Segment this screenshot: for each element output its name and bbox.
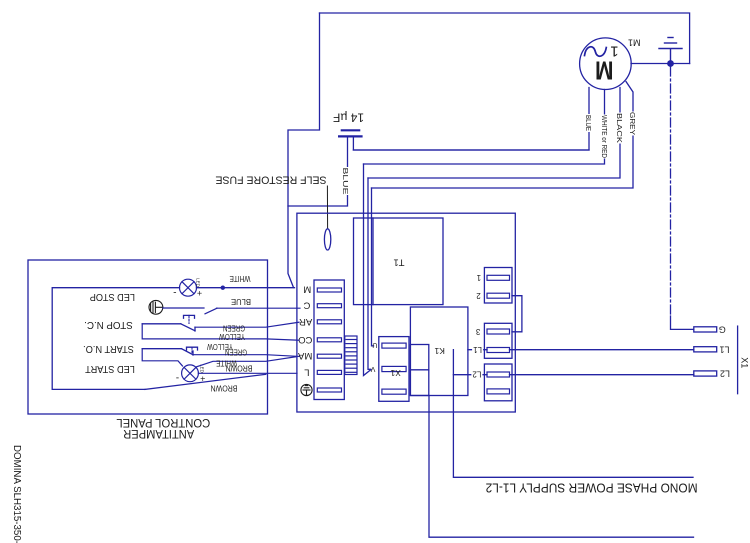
fuse F1 [324,229,330,250]
wire: mains top loop [320,13,690,64]
wire: motor to ground junction [631,63,690,65]
motor M1 [580,38,632,90]
label M [303,283,311,294]
svg-text:L: L [304,367,309,378]
svg-text:L2: L2 [472,370,481,379]
label 1 [476,273,481,282]
wire: STOP to AR [195,322,299,327]
label V [370,365,375,372]
svg-text:BROWN: BROWN [225,364,252,373]
label LED START [85,363,135,374]
earth terminal symbol [301,384,312,395]
wire: START to MA [193,355,299,357]
wire: GREY drop to U [372,188,374,346]
label WHITE (start) [216,359,237,368]
label C [303,300,310,311]
svg-text:L1: L1 [719,345,729,355]
wire: supply L1 bottom run [429,396,694,538]
svg-text:BLUE: BLUE [231,297,251,306]
svg-text:MONO PHASE POWER SUPPLY L1-L2: MONO PHASE POWER SUPPLY L1-L2 [486,480,698,495]
svg-text:U: U [372,341,377,348]
svg-text:X1: X1 [390,368,401,378]
terminal L2 [694,371,717,376]
wire: lamp to L [198,372,297,374]
svg-text:+: + [197,288,202,298]
label START N.O. [83,343,134,354]
label YELLOW [219,332,245,341]
svg-text:BLUE: BLUE [584,115,593,131]
ground symbol [659,38,682,64]
control panel outline [28,260,268,414]
transformer T1 [354,218,444,305]
svg-text:C: C [303,300,310,311]
label AR [299,316,312,327]
svg-text:L1: L1 [473,345,482,354]
svg-text:T1: T1 [393,256,404,267]
terminal block 3-L1 [484,323,512,358]
svg-text:X1: X1 [740,357,750,368]
wire: capacitor to M bus [288,138,348,207]
svg-text:1: 1 [610,43,618,60]
label GREY [628,112,637,136]
label YELLOW (start) [207,342,233,351]
svg-text:-: - [176,372,179,383]
svg-text:LED STOP: LED STOP [90,291,135,302]
wire: motor GREY [372,82,634,189]
label LED STOP [90,291,135,302]
wire: lamp to M [197,287,295,289]
switch START N.O. [142,347,197,355]
svg-text:GREEN: GREEN [225,347,247,356]
label GREEN (start) [225,347,247,356]
node: junction dot [221,286,225,290]
svg-text:G: G [719,325,726,335]
terminal L1 [694,347,717,352]
relay K1 [410,307,468,396]
svg-text:M1: M1 [628,37,641,47]
wire: BLACK drop to V [368,178,371,369]
wire: motor BLUE [353,88,589,151]
wire: mains left drop to M terminal [288,13,320,288]
svg-text:2: 2 [476,291,481,300]
buzzer [149,300,163,314]
label BLUE (motor) [584,114,593,132]
svg-text:WHITE: WHITE [230,274,251,283]
svg-text:BROWN: BROWN [210,384,237,393]
svg-text:-: - [173,286,176,297]
label L [304,367,309,378]
wire: capacitor to motor BLUE [353,138,589,151]
label WHITE or RED [600,115,609,159]
label GREEN [223,323,245,332]
terminal block 1-2 [484,268,512,304]
control board outline [297,213,515,412]
X1 bracket [737,326,739,394]
wire: lamp white to MA [196,357,297,367]
terminal block L2 [484,364,512,401]
svg-text:SELF RESTORE FUSE: SELF RESTORE FUSE [216,174,327,186]
lamp LED START [182,365,199,382]
label CO [298,334,312,345]
wire: brown return diagonal [145,374,266,389]
terminal G [694,327,717,332]
label ANTITAMPER CONTROL PANEL [116,416,210,430]
svg-text:BLACK: BLACK [615,113,624,143]
label BROWN (upper) [225,364,252,373]
label DOMINA code [11,445,23,543]
label MONO PHASE POWER SUPPLY L1-L2 [486,480,698,495]
label BLUE (panel) [231,297,251,306]
wire: L2 branch [453,350,693,478]
wire: earth dash-dot run to G terminal [670,67,672,316]
label U [372,341,377,348]
svg-text:LED START: LED START [85,363,135,374]
wire: L1 to X1 terminal [510,349,694,351]
svg-text:START N.O.: START N.O. [83,343,134,354]
label 3 [475,327,480,336]
wire: panel bus left [52,288,179,390]
svg-text:BLUE: BLUE [341,168,350,195]
lamp LED STOP [180,279,197,296]
svg-text:DOMINA SLH315-350-: DOMINA SLH315-350- [11,445,23,543]
label MA [297,350,312,361]
switch STOP N.C. [142,315,195,331]
svg-text:MA: MA [297,350,312,361]
wire: bus start to lamp [142,349,182,366]
capacitor C1 14uF [333,111,364,123]
label BLUE (capacitor) [341,167,350,195]
svg-text:V: V [370,365,375,372]
wire: WHITE/RED drop to V [364,164,372,376]
label M1 [628,37,641,47]
comb jumper block [345,336,357,375]
svg-text:K1: K1 [434,346,445,356]
label STOP N.C. [84,319,133,330]
svg-text:L2: L2 [720,368,730,378]
connector X1 (board) [379,337,409,402]
wire: L2 to X1 terminal [510,374,694,376]
label SELF RESTORE FUSE [216,174,327,186]
svg-text:WHITE or RED: WHITE or RED [600,115,609,158]
svg-text:GREY: GREY [628,112,637,135]
label L1 (board) [472,345,483,354]
svg-text:AR: AR [299,316,312,327]
label WHITE [230,274,251,283]
label BROWN (lower) [210,384,237,393]
svg-text:STOP N.C.: STOP N.C. [84,319,133,330]
svg-text:ANTITAMPER: ANTITAMPER [123,427,194,441]
svg-text:YELLOW: YELLOW [219,332,245,341]
wire: bus to CO (yellow) [142,324,299,340]
wire: fuse leader line [326,186,328,229]
svg-text:3: 3 [475,327,480,336]
wire: motor BLACK [368,88,620,179]
svg-text:GREEN: GREEN [223,323,245,332]
node: junction dot at ground [667,60,674,67]
wire: K1 to L1 [468,349,487,351]
label BLACK [615,113,624,144]
wire: motor WHITE or RED [364,90,605,165]
wire: buzzer to C [163,307,204,309]
K1 side block [410,345,428,396]
svg-text:M: M [303,283,311,294]
svg-text:LED: LED [196,278,201,288]
terminal strip left (panel side) [314,280,344,400]
svg-text:1: 1 [476,273,481,282]
label L2 (board) [471,370,482,379]
svg-text:14 µF: 14 µF [333,111,364,123]
svg-text:CO: CO [298,334,312,345]
wire: jumper 2 to 3 [512,296,522,332]
label 2 [476,291,481,300]
